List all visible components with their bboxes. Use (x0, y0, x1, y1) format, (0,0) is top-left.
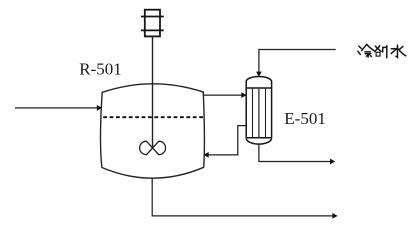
reactor R-501 vessel (101, 84, 205, 178)
feed line (into reactor) (15, 107, 98, 109)
impeller (bowtie) (140, 141, 166, 155)
label 冷卻水 (cooling water, drawn strokes) (358, 44, 406, 57)
motor M (agitator drive) (141, 10, 164, 37)
svg-text:E-501: E-501 (284, 109, 326, 128)
char que 卻 (375, 46, 379, 48)
condenser tubes (252, 88, 254, 138)
condenser E-501 shell (246, 77, 271, 145)
liquid level (dashed) (103, 116, 203, 118)
svg-text:R-501: R-501 (79, 60, 122, 79)
char leng 冷 (358, 46, 361, 54)
agitator shaft (152, 36, 154, 148)
condensate return line (condenser -> reactor) (208, 126, 247, 155)
char shui 水 (396, 45, 398, 57)
cooling water inlet line (259, 50, 336, 73)
vapour line reactor -> condenser (203, 94, 242, 96)
cooling water outlet line (259, 144, 331, 161)
bottom product line (152, 178, 333, 216)
